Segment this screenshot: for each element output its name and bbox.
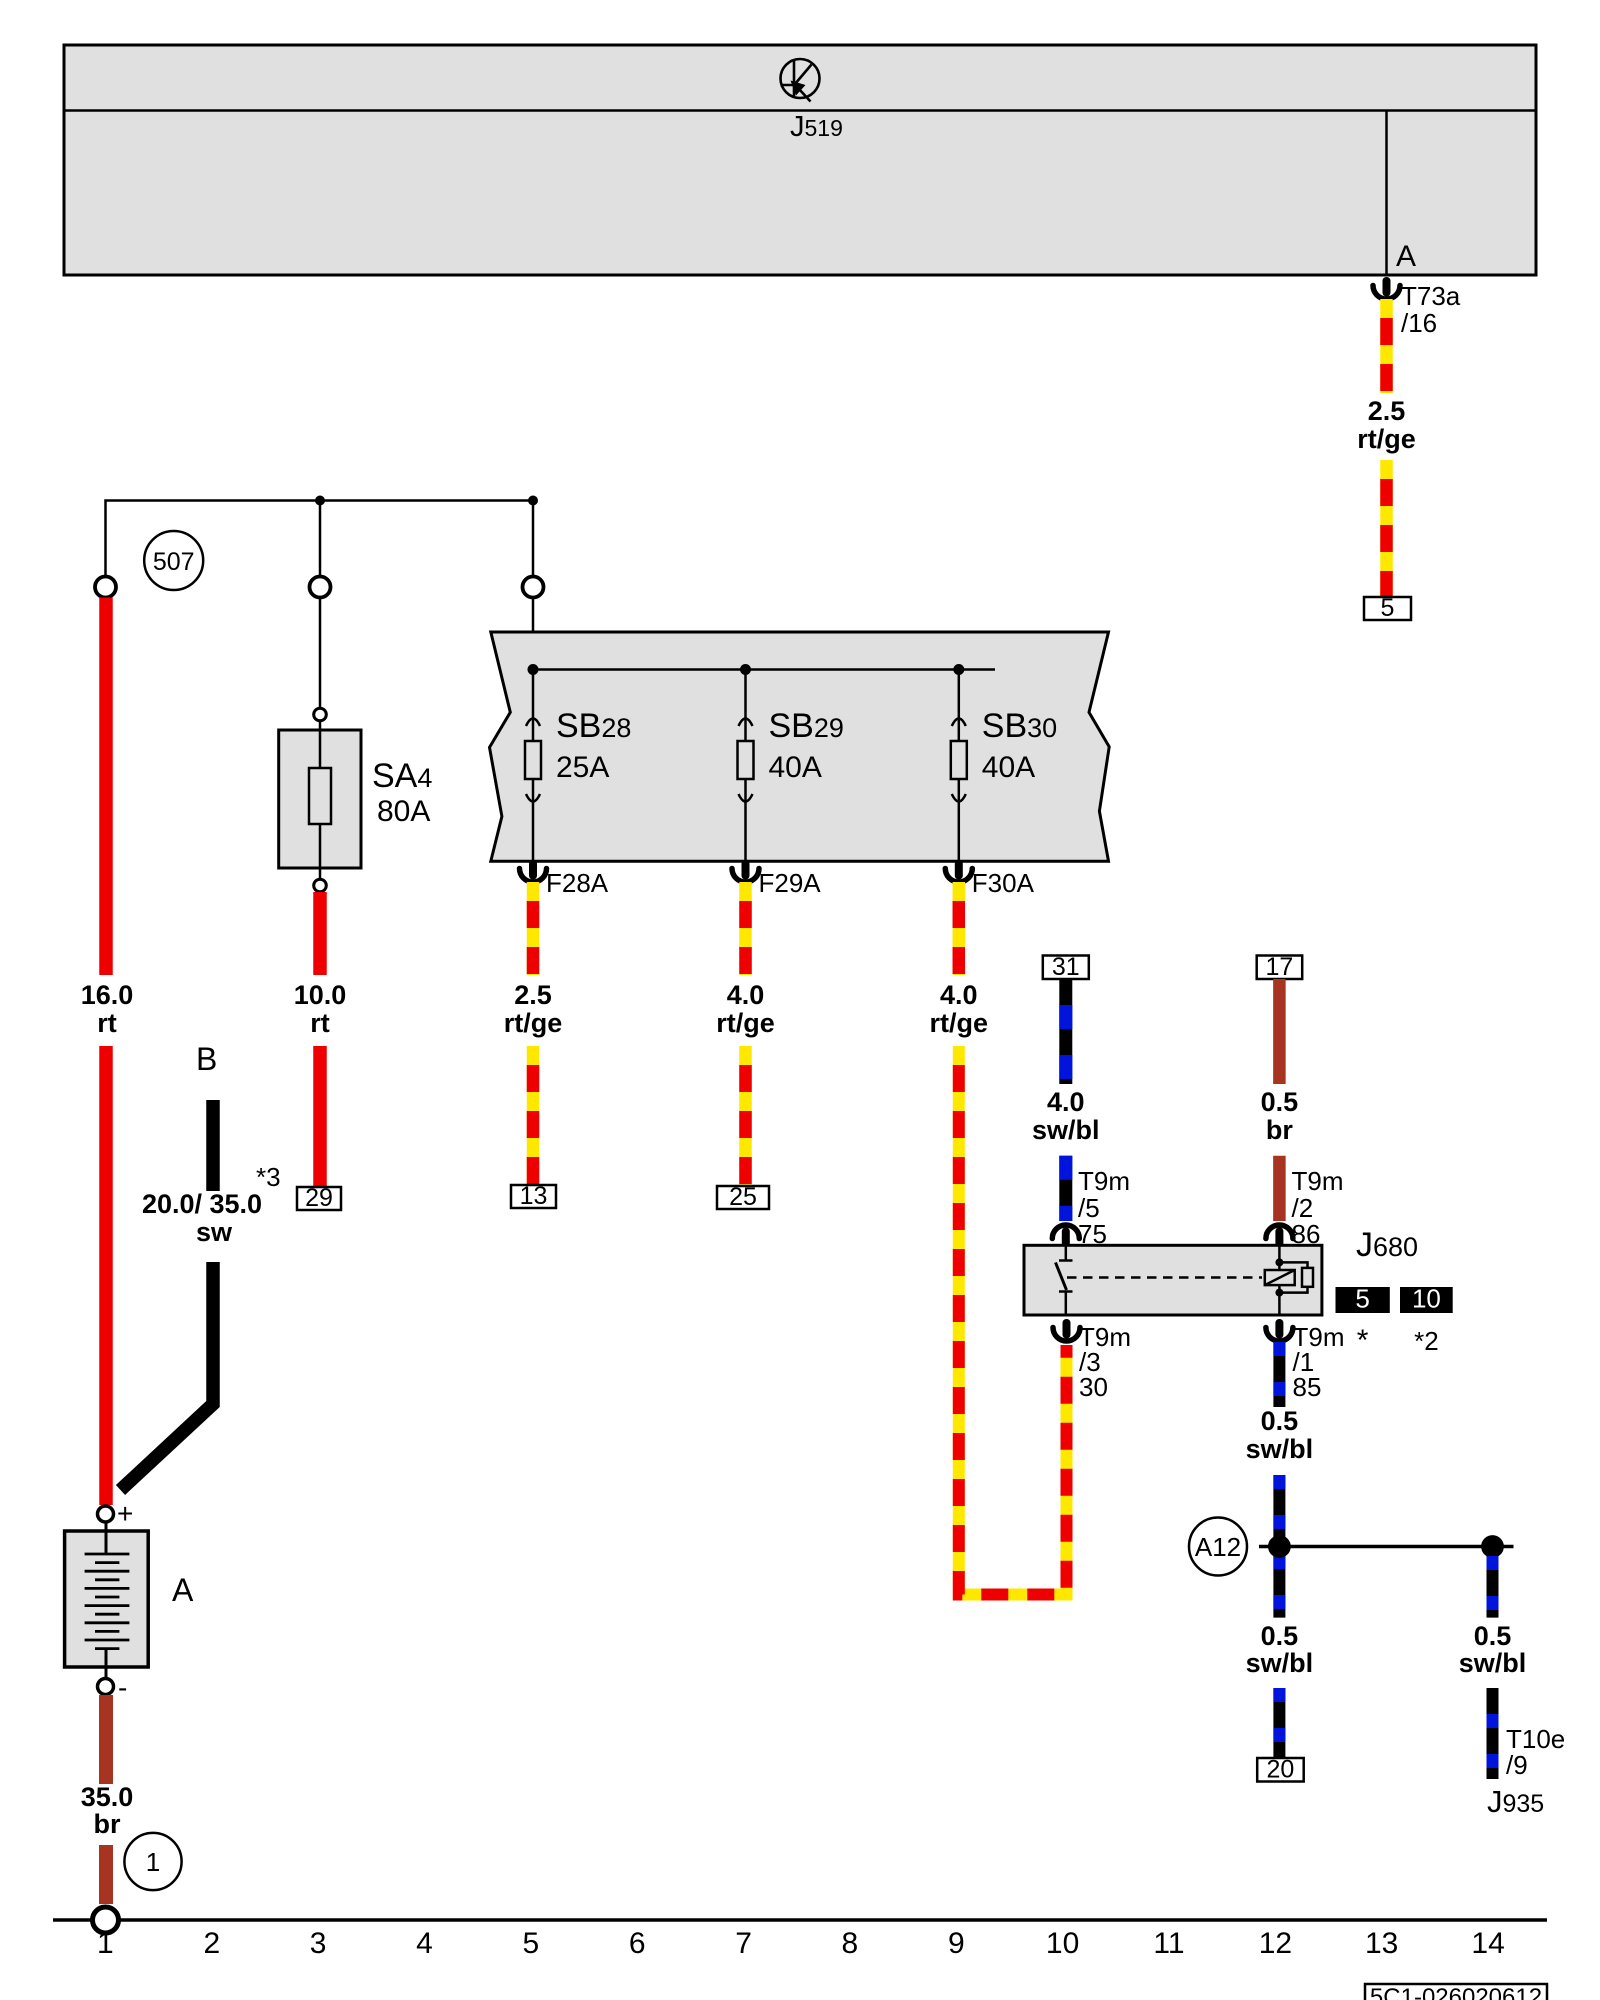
svg-text:sw/bl: sw/bl (1459, 1648, 1527, 1678)
svg-text:rt/ge: rt/ge (716, 1008, 775, 1038)
svg-text:1: 1 (97, 1927, 114, 1960)
connector T9m/3 terminal 30 (1053, 1319, 1080, 1341)
wire 10.0 rt lower segment (313, 1046, 327, 1187)
wire 16.0 rt lower segment (99, 1046, 113, 1505)
terminal 17 (1257, 953, 1303, 981)
svg-text:T9m: T9m (1078, 1166, 1130, 1196)
connector T9m/2 terminal 86 (1266, 1225, 1293, 1247)
connector F28A (520, 860, 547, 882)
svg-text:7: 7 (735, 1927, 752, 1960)
wire 4.0 rt/ge from F29A upper (739, 882, 752, 975)
junction dot A12 right (1481, 1535, 1504, 1558)
svg-text:+: + (117, 1498, 133, 1529)
svg-text:rt/ge: rt/ge (1357, 424, 1416, 454)
svg-text:40A: 40A (769, 751, 822, 784)
node A12 (1189, 1518, 1247, 1576)
wire 4.0 sw/bl upper segment (1059, 979, 1072, 1084)
svg-text:4.0: 4.0 (940, 980, 978, 1010)
wire 4.0 rt/ge from F29A lower (739, 1046, 752, 1186)
svg-text:6: 6 (629, 1927, 646, 1960)
wire 0.5 sw/bl right branch upper (1487, 1556, 1499, 1618)
svg-text:sw/bl: sw/bl (1032, 1115, 1100, 1145)
svg-text:2.5: 2.5 (514, 980, 552, 1010)
svg-text:12: 12 (1259, 1927, 1292, 1960)
terminal circle SA4 feed (310, 577, 331, 598)
wire 0.5 sw/bl through junction A12 (1273, 1475, 1285, 1618)
svg-text:5: 5 (1381, 594, 1395, 622)
label 0.5 sw/bl lower right (1459, 1621, 1527, 1678)
svg-text:/9: /9 (1506, 1750, 1528, 1780)
svg-text:13: 13 (1365, 1927, 1398, 1960)
label 0.5 br (1261, 1087, 1299, 1145)
wire junction A12 horizontal link (1259, 1545, 1514, 1549)
wire 10.0 rt upper segment (313, 892, 327, 975)
svg-text:*: * (1357, 1324, 1369, 1357)
svg-text:A: A (1396, 240, 1416, 273)
svg-text:F29A: F29A (759, 868, 822, 898)
label 4.0 sw/bl (1032, 1087, 1100, 1145)
wire terminal circle to fuse panel (532, 598, 535, 633)
svg-text:30: 30 (1079, 1372, 1108, 1402)
label 4.0 rt/ge F30A (930, 980, 989, 1038)
connector T73a/16 pin A (1373, 277, 1400, 299)
svg-text:*3: *3 (256, 1162, 281, 1192)
svg-text:0.5: 0.5 (1261, 1087, 1299, 1117)
svg-text:25: 25 (729, 1183, 757, 1211)
fuse panel internal bus wire (533, 668, 995, 671)
wire 0.5 sw/bl to J935 (1487, 1688, 1499, 1779)
wire 16.0 rt upper segment (99, 598, 113, 976)
svg-text:9: 9 (948, 1927, 965, 1960)
svg-text:5: 5 (522, 1927, 539, 1960)
svg-text:B: B (196, 1041, 217, 1077)
node 1 (124, 1833, 181, 1890)
svg-text:SA4: SA4 (372, 757, 432, 795)
svg-text:31: 31 (1052, 953, 1080, 981)
node 507 (144, 531, 203, 590)
svg-text:0.5: 0.5 (1261, 1406, 1299, 1436)
svg-text:80A: 80A (377, 795, 430, 828)
svg-text:*2: *2 (1414, 1326, 1439, 1356)
svg-text:507: 507 (153, 548, 195, 576)
svg-text:20: 20 (1266, 1756, 1294, 1784)
wire 2.5 rt/ge upper segment (1380, 299, 1393, 393)
wire 20.0/35.0 sw lower segment (121, 1262, 214, 1490)
wire 35.0 br upper segment (99, 1695, 113, 1784)
wire 20.0/35.0 sw upper segment (206, 1100, 220, 1191)
battery A (65, 1522, 149, 1678)
svg-text:rt: rt (97, 1008, 117, 1038)
terminal 20 (1257, 1756, 1304, 1784)
wire from J519 internal node to pin A (1385, 111, 1388, 275)
connector F30A (945, 860, 972, 882)
svg-text:F30A: F30A (972, 868, 1035, 898)
wire 0.5 sw/bl to terminal 20 (1273, 1688, 1285, 1758)
svg-text:SB28: SB28 (556, 707, 631, 745)
fuse SB30 40A (951, 670, 967, 862)
svg-text:0.5: 0.5 (1474, 1621, 1512, 1651)
svg-text:2: 2 (203, 1927, 220, 1960)
svg-text:4.0: 4.0 (727, 980, 765, 1010)
relay coil junction dot top (1275, 1258, 1283, 1266)
svg-text:sw: sw (196, 1217, 233, 1247)
terminal circle battery feed (95, 577, 116, 598)
wire 4.0 sw/bl lower segment (1059, 1156, 1072, 1221)
relay J680 box (1024, 1245, 1322, 1315)
svg-text:4: 4 (416, 1927, 433, 1960)
label 16.0 rt (81, 980, 134, 1038)
wire terminal circle to SA4 (319, 598, 322, 709)
terminal 29 (297, 1184, 341, 1212)
svg-text:13: 13 (520, 1182, 548, 1210)
svg-text:J519: J519 (790, 111, 843, 143)
svg-text:-: - (118, 1672, 127, 1703)
fuse SB28 25A (525, 670, 541, 862)
svg-text:20.0/ 35.0: 20.0/ 35.0 (142, 1189, 262, 1219)
svg-text:J935: J935 (1487, 1784, 1544, 1819)
relay coil (1265, 1245, 1313, 1315)
fuse SB29 40A (738, 670, 754, 862)
wire 2.5 rt/ge lower segment (1380, 460, 1393, 597)
svg-text:25A: 25A (556, 751, 609, 784)
wire battery positive distribution bus (106, 501, 534, 578)
junction dot bus/SB28 (528, 664, 539, 675)
SA4 lower pin circle (314, 879, 327, 892)
svg-text:sw/bl: sw/bl (1246, 1648, 1314, 1678)
svg-text:5C1-026020612: 5C1-026020612 (1370, 1984, 1542, 2000)
wire 0.5 br upper segment (1273, 979, 1286, 1084)
junction dot bus/SB30 (953, 664, 964, 675)
label 35.0 br (81, 1782, 134, 1839)
wire 4.0 rt/ge from F30A upper (953, 882, 966, 975)
svg-text:T73a: T73a (1401, 281, 1461, 311)
label 10.0 rt (294, 980, 347, 1038)
J519 box divider line (64, 109, 1536, 112)
connector T9m/1 terminal 85 (1266, 1319, 1293, 1341)
wire 2.5 rt/ge from F28A lower (527, 1046, 540, 1185)
relay coil junction dot bottom (1275, 1289, 1283, 1297)
svg-text:29: 29 (305, 1184, 333, 1212)
terminal 25 (717, 1183, 769, 1211)
junction dot (315, 496, 325, 506)
svg-text:F28A: F28A (546, 868, 609, 898)
wire 35.0 br lower segment (99, 1845, 113, 1904)
connector T9m/5 terminal 75 (1052, 1225, 1079, 1247)
svg-text:A: A (172, 1572, 194, 1608)
svg-text:10: 10 (1046, 1927, 1079, 1960)
svg-text:85: 85 (1293, 1372, 1322, 1402)
terminal 31 (1043, 953, 1089, 981)
svg-text:35.0: 35.0 (81, 1782, 134, 1812)
J519 onboard-supply symbol (781, 59, 820, 102)
battery positive terminal circle (98, 1498, 134, 1529)
relay code box 5 (1336, 1284, 1390, 1314)
svg-text:17: 17 (1265, 953, 1293, 981)
svg-text:rt/ge: rt/ge (504, 1008, 563, 1038)
label 4.0 rt/ge F29A (716, 980, 775, 1038)
svg-text:5: 5 (1355, 1284, 1369, 1314)
fuse SA4 (279, 721, 361, 879)
svg-text:sw/bl: sw/bl (1246, 1434, 1314, 1464)
svg-text:/16: /16 (1401, 308, 1437, 338)
svg-text:SB29: SB29 (769, 707, 844, 745)
svg-text:14: 14 (1471, 1927, 1504, 1960)
svg-text:rt: rt (310, 1008, 330, 1038)
svg-text:br: br (94, 1809, 121, 1839)
svg-text:J680: J680 (1356, 1226, 1418, 1264)
svg-text:3: 3 (310, 1927, 327, 1960)
svg-text:16.0: 16.0 (81, 980, 134, 1010)
svg-text:10: 10 (1412, 1284, 1441, 1314)
svg-text:T9m: T9m (1292, 1166, 1344, 1196)
svg-text:0.5: 0.5 (1261, 1621, 1299, 1651)
wire 4.0 rt/ge from F30A to relay terminal 30 (959, 1046, 1067, 1595)
label 2.5 rt/ge (1357, 396, 1416, 454)
wire 2.5 rt/ge from F28A upper (527, 882, 540, 975)
ground terminal circle (93, 1907, 119, 1933)
svg-text:2.5: 2.5 (1368, 396, 1406, 426)
terminal 5 (1364, 594, 1411, 622)
control unit J519 box (64, 45, 1536, 275)
wire 0.5 br lower segment (1273, 1156, 1286, 1221)
label 20.0/ 35.0 sw (142, 1189, 262, 1247)
svg-text:11: 11 (1153, 1927, 1184, 1960)
junction dot bus/SB29 (740, 664, 751, 675)
svg-text:rt/ge: rt/ge (930, 1008, 989, 1038)
battery negative terminal circle (98, 1672, 128, 1703)
fuse panel band (torn edges) (490, 632, 1110, 861)
svg-text:1: 1 (146, 1847, 160, 1877)
junction dot A12 left (1268, 1535, 1291, 1558)
terminal circle SB feed (523, 577, 544, 598)
svg-text:A12: A12 (1195, 1532, 1241, 1562)
label 0.5 sw/bl upper (1246, 1406, 1314, 1464)
bottom rail line (53, 1918, 1547, 1922)
SA4 upper pin circle (314, 708, 327, 721)
svg-text:br: br (1266, 1115, 1293, 1145)
relay actuation dashed line (1067, 1276, 1262, 1279)
svg-text:SB30: SB30 (982, 707, 1057, 745)
svg-text:10.0: 10.0 (294, 980, 347, 1010)
label 2.5 rt/ge F28A (504, 980, 563, 1038)
wire 0.5 sw/bl segment below relay (1273, 1342, 1285, 1407)
relay code box 10 (1400, 1284, 1453, 1314)
junction dot (528, 496, 538, 506)
terminal 13 (511, 1182, 556, 1210)
svg-text:8: 8 (842, 1927, 859, 1960)
svg-text:40A: 40A (982, 751, 1035, 784)
connector F29A (732, 860, 759, 882)
label 0.5 sw/bl lower left (1246, 1621, 1314, 1678)
relay switch contact (1056, 1245, 1073, 1315)
svg-text:4.0: 4.0 (1047, 1087, 1085, 1117)
diagram code box 5C1-026020612 (1365, 1984, 1547, 2000)
grid numbers (97, 1927, 1505, 1960)
